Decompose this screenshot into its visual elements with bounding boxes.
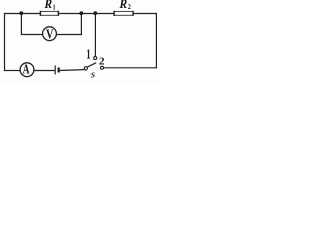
switch pivot circle (84, 67, 87, 70)
svg-text:V: V (46, 26, 54, 42)
svg-text:S: S (91, 71, 95, 80)
svg-text:A: A (23, 63, 30, 77)
wire R1 to R2 (59, 13, 114, 15)
node junction dot V-right (79, 11, 83, 15)
wire R2 to top-right corner (133, 13, 157, 15)
wire ammeter to battery (34, 70, 55, 72)
switch lever S (87, 63, 96, 67)
voltmeter V1 (43, 27, 57, 41)
wire junction to contact 1 (94, 14, 96, 57)
svg-text:1: 1 (86, 46, 90, 62)
svg-text:1: 1 (53, 4, 56, 12)
battery short plate (58, 68, 60, 73)
node junction dot switch branch (93, 11, 97, 15)
wire contact 2 to right edge (104, 67, 157, 69)
svg-text:R: R (44, 0, 53, 11)
svg-text:2: 2 (99, 56, 105, 67)
wire battery to switch pivot (60, 69, 85, 72)
node junction dot left (19, 11, 23, 15)
wire top-left segment (4, 13, 40, 15)
resistor R1 (40, 11, 58, 15)
switch contact 1 circle (94, 57, 97, 60)
wire right edge (155, 13, 157, 69)
resistor R2 (114, 11, 133, 15)
wire voltmeter branch right (56, 14, 81, 35)
battery long plate (54, 65, 56, 74)
switch contact 2 circle (101, 66, 104, 69)
svg-text:R: R (119, 0, 128, 11)
svg-text:2: 2 (128, 4, 131, 12)
ammeter A1 (20, 63, 34, 77)
wire voltmeter branch left (21, 14, 42, 35)
wire bottom-left to ammeter (4, 70, 20, 72)
wire left edge (4, 13, 6, 71)
